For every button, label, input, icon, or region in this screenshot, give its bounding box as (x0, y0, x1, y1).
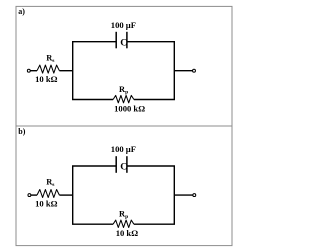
svg-text:100 µF: 100 µF (111, 144, 136, 154)
svg-text:b): b) (18, 127, 25, 136)
svg-text:100 µF: 100 µF (111, 20, 136, 30)
svg-text:10 kΩ: 10 kΩ (35, 74, 58, 84)
svg-text:1000 kΩ: 1000 kΩ (114, 104, 145, 114)
svg-text:C: C (120, 162, 127, 173)
svg-text:a): a) (18, 7, 25, 16)
svg-text:10 kΩ: 10 kΩ (35, 198, 58, 208)
svg-text:10 kΩ: 10 kΩ (116, 228, 139, 238)
svg-text:C: C (120, 37, 127, 48)
